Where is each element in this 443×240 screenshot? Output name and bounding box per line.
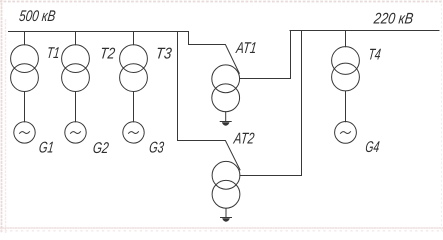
generator G2 (65, 122, 86, 143)
bus 500 kV (9, 31, 189, 33)
svg-text:220 кВ: 220 кВ (372, 11, 414, 28)
wire T2 drop (75, 32, 77, 45)
svg-text:G1: G1 (38, 139, 55, 156)
svg-text:T3: T3 (155, 45, 173, 62)
wire T4 drop (345, 31, 347, 47)
autotransformer AT2 (212, 161, 240, 208)
svg-text:T1: T1 (46, 45, 61, 62)
wire 500kV bus to AT1 (step down + diagonal) (189, 32, 240, 74)
svg-text:AT2: AT2 (232, 131, 255, 148)
svg-text:G4: G4 (364, 139, 380, 156)
wire T1 to G1 (24, 92, 26, 122)
svg-text:G3: G3 (148, 140, 165, 157)
transformer T2 (62, 45, 90, 92)
generator G1 (14, 122, 35, 143)
wire 500kV bus to AT2 (drop, step + diagonal) (178, 32, 241, 170)
bus 220 kV (290, 30, 439, 32)
ground AT2 (221, 208, 232, 222)
wire T4 to G4 (345, 91, 347, 122)
generator G4 (335, 121, 357, 143)
svg-text:AT1: AT1 (234, 40, 257, 57)
wire AT2 to 220kV bus (240, 31, 302, 176)
wire T3 drop (133, 32, 135, 45)
wire T1 drop (24, 32, 26, 45)
svg-text:500 кВ: 500 кВ (18, 8, 56, 25)
wire T3 to G3 (133, 92, 135, 122)
wire AT1 to 220kV bus (240, 31, 291, 79)
ground AT1 (220, 112, 231, 126)
autotransformer AT1 (212, 65, 240, 112)
transformer T4 (332, 47, 360, 91)
svg-text:T4: T4 (367, 47, 381, 64)
svg-text:T2: T2 (99, 45, 116, 62)
wire T2 to G2 (75, 92, 77, 122)
svg-text:G2: G2 (92, 140, 110, 157)
transformer T1 (11, 45, 39, 92)
transformer T3 (120, 45, 148, 92)
generator G3 (123, 122, 144, 143)
